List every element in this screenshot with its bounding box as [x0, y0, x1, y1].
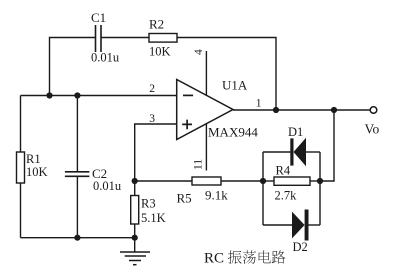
- svg-text:D1: D1: [288, 125, 303, 139]
- svg-text:9.1k: 9.1k: [205, 188, 228, 203]
- svg-text:MAX944: MAX944: [208, 125, 258, 140]
- svg-text:R2: R2: [149, 16, 164, 31]
- svg-text:10K: 10K: [26, 165, 48, 179]
- svg-text:R1: R1: [26, 152, 41, 166]
- svg-text:R5: R5: [177, 191, 192, 206]
- svg-text:4: 4: [193, 49, 205, 55]
- svg-text:C1: C1: [91, 10, 106, 25]
- svg-text:Vo: Vo: [365, 122, 380, 137]
- svg-text:11: 11: [193, 159, 205, 170]
- svg-text:1: 1: [256, 97, 262, 109]
- svg-text:RC: RC: [204, 251, 224, 267]
- svg-text:U1A: U1A: [222, 78, 248, 93]
- svg-text:3: 3: [149, 113, 155, 125]
- svg-text:D2: D2: [293, 240, 308, 254]
- svg-text:10K: 10K: [149, 45, 171, 59]
- svg-text:R4: R4: [276, 163, 291, 177]
- svg-text:0.01u: 0.01u: [91, 51, 120, 65]
- svg-text:0.01u: 0.01u: [93, 179, 122, 193]
- svg-text:R3: R3: [141, 197, 156, 211]
- svg-text:5.1K: 5.1K: [141, 211, 166, 225]
- svg-text:2.7k: 2.7k: [275, 189, 298, 203]
- svg-text:2: 2: [149, 83, 155, 95]
